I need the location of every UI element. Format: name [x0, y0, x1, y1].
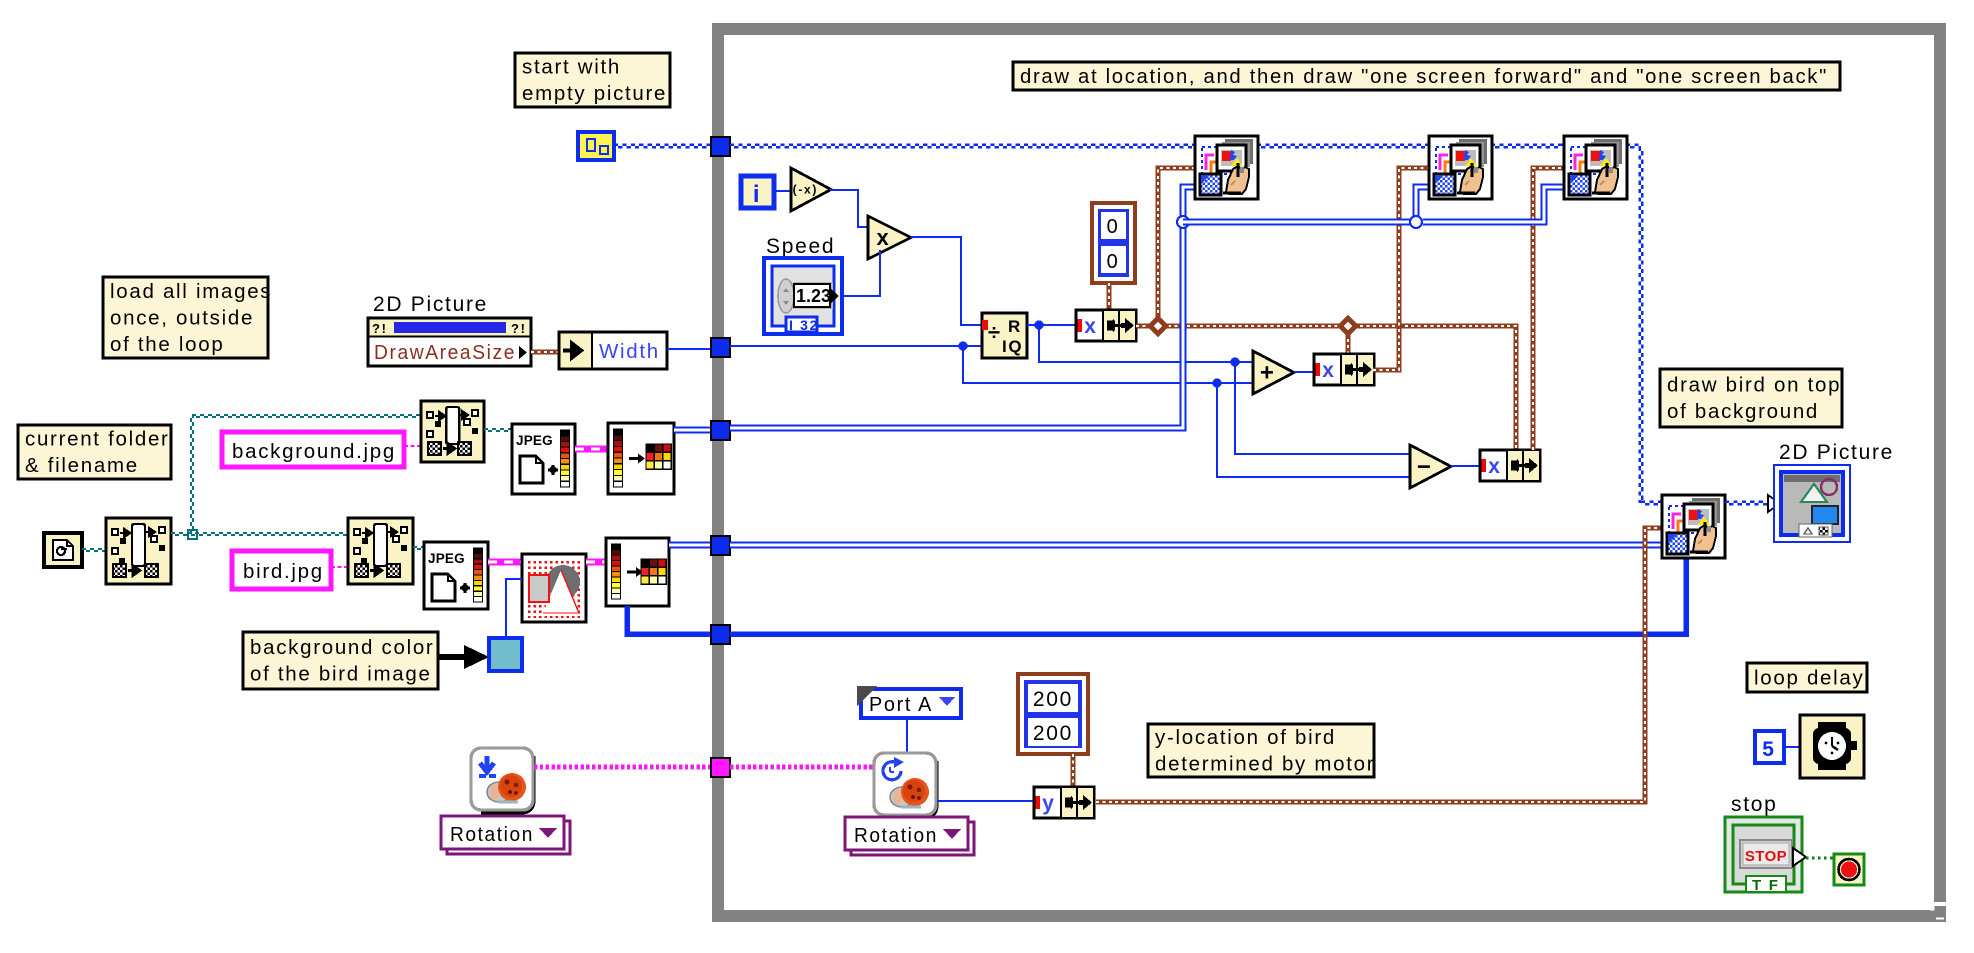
svg-text:R: R — [1008, 317, 1022, 336]
wire: R branch down to plus — [1039, 325, 1253, 362]
svg-text:I 32: I 32 — [789, 317, 819, 333]
wire: rotation write to loop tunnel (device magenta) — [534, 765, 712, 770]
wire: bundle2 to draw 2 — [1373, 168, 1430, 370]
wire: build path 3 to JPEG2 — [413, 546, 424, 548]
plus node — [1253, 351, 1294, 394]
svg-text:i: i — [753, 181, 761, 208]
wire: Port A to motor read — [906, 718, 908, 753]
comment: current folder & filename — [18, 425, 171, 479]
draw flattened pixmap 2 — [1429, 136, 1492, 199]
svg-text:start with: start with — [522, 56, 621, 79]
Rotation selector 1 — [441, 816, 570, 854]
svg-text:background color: background color — [250, 636, 434, 659]
wire: bundle3 to draw 3 — [1533, 168, 1565, 450]
strip path 1 (folder) — [106, 518, 171, 584]
svg-text:?!: ?! — [372, 321, 388, 336]
comment: load all images once — [103, 277, 272, 358]
comment: draw at location — [1013, 62, 1840, 90]
svg-text:JPEG: JPEG — [516, 433, 553, 448]
negate node — [791, 168, 831, 211]
wire: R to minus (top) — [1235, 362, 1410, 454]
svg-text:bird.jpg: bird.jpg — [243, 560, 324, 583]
iteration terminal i — [741, 176, 774, 208]
comment: draw bird on top — [1660, 369, 1842, 427]
wire: background.jpg to build path (string pink) — [404, 445, 421, 447]
svg-text:Rotation: Rotation — [854, 824, 938, 847]
bundle node: replace x (third) — [1480, 450, 1540, 481]
wire: minus to bundle 3 — [1451, 465, 1480, 467]
svg-text:1.23: 1.23 — [796, 286, 831, 306]
wire: empty picture constant to loop tunnel — [614, 143, 712, 145]
wire: width branch down — [963, 346, 1253, 383]
motor device wire inside loop — [730, 765, 874, 770]
wire: DrawAreaSize to unbundle (cluster) — [531, 350, 559, 355]
bundle node: replace y — [1034, 787, 1094, 818]
comment: loop delay — [1747, 663, 1867, 692]
draw flattened pixmap 4 (bird) — [1662, 495, 1725, 558]
wire: to-pixmap1 to loop tunnel (2D array) — [674, 427, 712, 434]
svg-text:5: 5 — [1762, 738, 1775, 761]
svg-text:Port A: Port A — [869, 693, 933, 716]
svg-text:load all images: load all images — [110, 280, 272, 303]
svg-text:200: 200 — [1033, 722, 1073, 745]
pixmap wire junction 2 — [1410, 216, 1422, 228]
tunnel: motor device — [711, 758, 730, 777]
picture wire: draw4 to indicator — [1725, 500, 1768, 502]
wire: plus to bundle 2 — [1294, 371, 1314, 373]
brown branch down to bundle 2 — [1346, 326, 1351, 354]
brown branch up to draw 1 — [1158, 168, 1196, 326]
Speed control — [764, 258, 842, 334]
svg-text:background.jpg: background.jpg — [232, 440, 396, 463]
svg-text:once, outside: once, outside — [110, 307, 254, 330]
draw flattened pixmap 3 — [1564, 136, 1627, 199]
stop button terminal — [1725, 817, 1806, 894]
comment: y-location of bird — [1148, 724, 1375, 777]
wire: Speed to multiply — [840, 250, 880, 296]
tunnel: background pixmap — [711, 421, 730, 440]
svg-text:x: x — [1488, 455, 1501, 478]
wire: width to minus (bottom) — [1217, 383, 1410, 477]
svg-text:draw at location, and then dra: draw at location, and then draw "one scr… — [1020, 65, 1828, 88]
tunnel: bird mask array — [711, 625, 730, 644]
wire: quotient R output — [1027, 324, 1076, 326]
string constant background.jpg — [222, 432, 404, 467]
wire: JPEG1 to to-pixmap1 (image pink) — [575, 446, 608, 453]
string constant bird.jpg — [232, 551, 331, 589]
wire: to-pixmap2 bottom output (1D/thick blue) — [627, 606, 712, 634]
empty picture constant — [578, 132, 614, 160]
wire: motor read to bundle y — [937, 800, 1034, 802]
wire: multiply to quotient — [911, 237, 982, 325]
to pixmap 1 (background) — [608, 423, 674, 494]
svg-text:& filename: & filename — [25, 454, 139, 477]
wire: build path to JPEG read (path) — [484, 428, 512, 430]
main brown location wire — [1136, 326, 1516, 450]
svg-text:y: y — [1042, 792, 1055, 815]
wire: 200,200 to bundle y — [1071, 754, 1076, 787]
svg-text:of the bird image: of the bird image — [250, 663, 432, 686]
bird pixmap wire across loop — [730, 542, 1662, 549]
svg-text:x: x — [1322, 359, 1335, 382]
svg-text:2D Picture: 2D Picture — [1779, 441, 1894, 464]
tunnel: Width — [711, 338, 730, 357]
create mask by color node — [522, 554, 586, 622]
svg-text:?!: ?! — [511, 321, 527, 336]
color box constant (background color) — [489, 638, 522, 671]
wait (ms) node — [1800, 715, 1864, 778]
wire: stop to loop condition — [1806, 857, 1834, 860]
wire: bird.jpg to build path 3 — [331, 566, 348, 568]
svg-text:2D Picture: 2D Picture — [373, 293, 488, 316]
svg-text:draw bird on top: draw bird on top — [1667, 374, 1841, 397]
svg-text:of background: of background — [1667, 400, 1819, 423]
numeric constant 5 — [1755, 731, 1784, 763]
wire: Width to loop tunnel — [667, 348, 712, 350]
unbundle by name: Width — [559, 332, 667, 369]
wire: 5 to wait — [1784, 746, 1800, 748]
Port A enum constant — [857, 686, 961, 718]
JPEG read 2 (bird) — [424, 542, 488, 609]
build path 3 (bird) — [348, 518, 413, 584]
cluster constant 0,0 — [1092, 203, 1135, 283]
svg-text:T F: T F — [1752, 877, 1780, 894]
wire: negate to multiply — [830, 190, 868, 227]
bundle node: replace x (second) — [1314, 354, 1374, 385]
to pixmap 2 (bird) — [606, 538, 669, 606]
comment: background color of the bird image — [243, 632, 438, 689]
svg-text:determined by motor: determined by motor — [1155, 753, 1375, 776]
svg-text:0: 0 — [1107, 216, 1120, 238]
svg-text:x: x — [877, 225, 891, 250]
background pixmap wire into loop — [730, 187, 1196, 428]
svg-text:IQ: IQ — [1002, 337, 1023, 356]
svg-text:÷: ÷ — [988, 320, 1002, 345]
svg-text:Speed: Speed — [766, 235, 835, 258]
cluster constant 200,200 — [1018, 674, 1088, 754]
svg-text:Width: Width — [599, 340, 660, 363]
svg-text:loop delay: loop delay — [1754, 667, 1864, 690]
svg-text:x: x — [1084, 315, 1097, 338]
tunnel: picture wire — [711, 137, 730, 156]
svg-text:y-location of bird: y-location of bird — [1155, 726, 1336, 749]
picture wire across top — [730, 143, 1196, 145]
svg-text:STOP: STOP — [1745, 848, 1787, 865]
wire: color box to mask node — [506, 579, 522, 638]
bird mask thick wire — [730, 559, 1686, 634]
svg-text:0: 0 — [1107, 251, 1120, 273]
wire: JPEG2 to mask node (image pink) — [488, 559, 522, 566]
svg-text:JPEG: JPEG — [428, 551, 465, 566]
wire: i to negate — [774, 190, 791, 192]
svg-text:of the loop: of the loop — [110, 333, 224, 356]
pixmap wire to draw2/draw3 — [1183, 219, 1416, 226]
wire: 0,0 cluster to bundle x — [1107, 283, 1112, 310]
tunnel: bird pixmap — [711, 536, 730, 555]
path constant (current VI path) — [44, 533, 82, 567]
draw flattened pixmap 1 — [1195, 136, 1258, 199]
svg-text:stop: stop — [1731, 793, 1778, 816]
svg-text:current folder: current folder — [25, 428, 170, 451]
while loop border — [712, 23, 1946, 922]
wire: mask to to-pixmap2 (image pink) — [586, 559, 606, 566]
comment: start with empty picture — [515, 53, 670, 107]
svg-text:(-x): (-x) — [793, 183, 818, 197]
quotient &amp; remainder node — [982, 313, 1027, 358]
pixmap wire junction 1 — [1177, 216, 1189, 228]
wire: bundle y to draw bird node — [1096, 528, 1662, 802]
svg-text:DrawAreaSize: DrawAreaSize — [374, 341, 516, 364]
property node 2D Picture DrawAreaSize — [368, 318, 531, 366]
minus node — [1410, 445, 1451, 488]
wire: path constant to strip path 1 — [82, 548, 106, 550]
wire: strip path 1 output branches (teal path wire) — [171, 532, 348, 534]
multiply node — [868, 216, 911, 259]
motor read node (Rotation get) — [874, 753, 936, 817]
JPEG read 1 (background) — [512, 424, 575, 494]
svg-text:empty picture: empty picture — [522, 82, 667, 105]
2D Picture indicator — [1774, 465, 1850, 542]
bundle node: replace x (first) — [1076, 310, 1136, 341]
svg-text:−: − — [1417, 454, 1433, 481]
svg-text:200: 200 — [1033, 688, 1073, 711]
loop condition terminal (stop sign) — [1834, 854, 1864, 885]
svg-text:+: + — [1260, 360, 1276, 387]
build path 2 (background) — [421, 401, 484, 462]
wire: to-pixmap2 to loop tunnel (bird 2D array) — [669, 542, 712, 549]
Rotation selector 2 — [845, 817, 974, 855]
svg-text:Rotation: Rotation — [450, 823, 534, 846]
motor write node (Rotation set) — [471, 748, 533, 812]
pointer arrow from comment — [438, 645, 489, 669]
wire: Width tunnel into quotient y — [730, 345, 982, 347]
